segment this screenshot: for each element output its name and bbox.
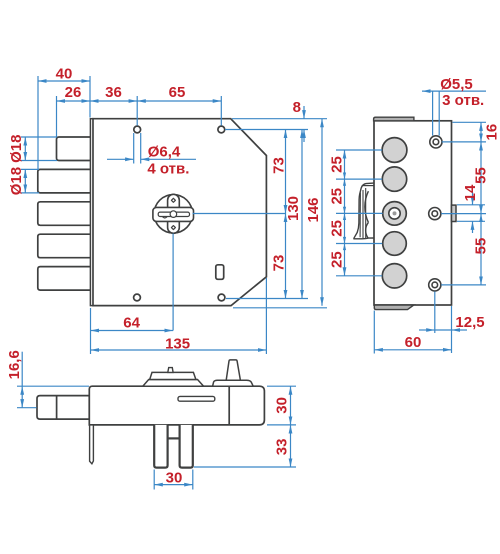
dim dia18 no1 line (24, 137, 26, 161)
wire: washer3 ext down (434, 292, 436, 334)
hub web line (168, 437, 180, 439)
dim chain 25 mid arrows at circle2 (343, 173, 346, 186)
wire: stub bottom tick (457, 220, 485, 222)
svg-text:60: 60 (405, 334, 422, 351)
faceplate blade (90, 425, 94, 464)
wire: hole width ext line right (140, 133, 142, 164)
svg-text:25: 25 (328, 220, 345, 237)
dim 12,5 left arrow (419, 329, 435, 331)
dim 16,6 line (21, 352, 23, 387)
dim 30 bottom line (154, 484, 193, 486)
cylinder horizontal bar (153, 207, 194, 221)
wire: ext line x=90 for dims 40/26/36 (89, 76, 91, 118)
wire: hub right ext down (192, 470, 194, 490)
svg-text:Ø18: Ø18 (8, 167, 25, 195)
keyway notch (162, 217, 167, 219)
leader dia 5,5 underline (422, 90, 486, 92)
dim 30 vertical line (290, 386, 292, 425)
wire: bottom hole ext line right (226, 298, 308, 300)
svg-text:12,5: 12,5 (455, 314, 484, 331)
wire: keyhole vertical centerline down (172, 234, 174, 331)
svg-text:16: 16 (483, 124, 500, 141)
lock body front view (93, 119, 267, 306)
cylinder vertical capsule (168, 194, 180, 233)
svg-text:8: 8 (293, 99, 301, 116)
svg-text:40: 40 (56, 66, 73, 83)
dim 8 lower arrow (303, 130, 305, 143)
dim chain 25 mid arrows at circle4 (343, 237, 346, 250)
bolt circle 4 (383, 232, 407, 256)
wire: circle1 connector (336, 149, 382, 151)
wire: bolt2 top ext (21, 168, 39, 170)
dim 33 line (290, 425, 292, 467)
bottom view bolt (37, 396, 89, 420)
wire: hole 5,5 ext left (432, 91, 434, 136)
keyway bump (170, 211, 177, 218)
svg-text:146: 146 (305, 197, 322, 222)
washer 2 (429, 208, 441, 220)
wire: top hole ext line right (225, 129, 308, 131)
washer 3 (429, 279, 441, 291)
key slot bottom view (178, 396, 215, 401)
wire: bolt2 bottom ext (21, 192, 39, 194)
svg-text:55: 55 (473, 238, 490, 255)
screw hole bottom-left (134, 294, 141, 301)
svg-text:16,6: 16,6 (6, 350, 23, 379)
hub bracket left leg (154, 425, 167, 468)
bolt circle 5 (382, 264, 406, 288)
faceplate front view (90, 119, 93, 306)
bolt B2 (38, 169, 91, 193)
dim 65 line (137, 100, 221, 102)
wire: keyhole centerline to right (193, 213, 286, 215)
lever contour lines (359, 193, 361, 238)
washer 1 (430, 136, 442, 148)
wire: hub left ext down (153, 470, 155, 490)
dim 16 line (480, 122, 482, 142)
svg-text:55: 55 (473, 167, 490, 184)
wire: washer2 connector (441, 213, 486, 215)
svg-text:30: 30 (166, 469, 183, 486)
wire: hub bottom ext right (194, 466, 296, 468)
svg-text:64: 64 (123, 315, 140, 332)
slot window (216, 265, 224, 280)
knob cone (226, 360, 240, 380)
wire: bolt axis ext left (17, 407, 37, 409)
screw hole top-right (218, 126, 225, 133)
lever on side view (354, 183, 374, 239)
bolt B5 (38, 267, 91, 291)
bottom view body (89, 386, 264, 425)
wire: circle2 connector (336, 178, 382, 180)
bolt divider (56, 396, 58, 420)
screw hole bottom-right (218, 294, 225, 301)
wire: side left edge ext down (373, 311, 375, 354)
wire: side right edge ext down (451, 306, 453, 353)
cylinder outer circle (154, 195, 192, 233)
dim dia18 no2 line (24, 169, 26, 193)
dim 135 line (91, 349, 267, 351)
wire: stub top tick (457, 204, 485, 206)
svg-text:73: 73 (271, 157, 288, 174)
side view body (374, 121, 452, 305)
dim chain 25 line (344, 150, 346, 276)
lever head line (362, 185, 374, 187)
wire: ext line x=38 for dim 40 (37, 76, 39, 170)
wire: hole width ext line left (133, 133, 135, 164)
svg-text:4 отв.: 4 отв. (147, 160, 189, 177)
wire: bolt1 bottom ext (21, 160, 57, 162)
dim 64 line (91, 330, 174, 332)
svg-text:36: 36 (105, 84, 122, 101)
svg-text:Ø6,4: Ø6,4 (148, 144, 181, 161)
svg-text:Ø18: Ø18 (8, 135, 25, 163)
body inner line (228, 386, 230, 425)
dim 14 upper arrow (472, 192, 474, 205)
dim chain 25 mid arrows at circle3 (343, 207, 346, 220)
collar nub (168, 368, 173, 373)
wire: side top edge ext (453, 121, 487, 123)
screw hole top-left (134, 126, 141, 133)
dim 60 line (374, 349, 451, 351)
bolt circle 1 (382, 138, 407, 163)
bolt B4 (38, 234, 91, 258)
wire: ext line x=56.5 for dim 26 (56, 96, 58, 137)
lever arc big (365, 191, 369, 222)
wire: bottom body top ext left (17, 385, 89, 387)
wire: ext line x=221.3 for dim 65 (220, 96, 222, 126)
wire: top edge ext to 146 dim (232, 118, 327, 120)
bolt B3 (38, 202, 91, 226)
dim 146 line (321, 119, 323, 306)
bolt circle 2 (382, 167, 406, 191)
svg-text:3 отв.: 3 отв. (442, 92, 484, 109)
dim 55 lower line (480, 214, 482, 285)
wire: bottom body bottom ext right (267, 424, 296, 426)
svg-text:Ø5,5: Ø5,5 (440, 76, 473, 93)
dim 8 upper arrow (303, 106, 305, 119)
collar cap (150, 372, 196, 379)
dim 130 line (301, 130, 303, 299)
dim 36 line (90, 100, 137, 102)
svg-text:25: 25 (328, 188, 345, 205)
side view top tab (374, 117, 414, 121)
latch stub (452, 205, 457, 221)
dim 73 upper line (285, 130, 287, 214)
svg-text:135: 135 (165, 335, 190, 352)
svg-text:73: 73 (271, 255, 288, 272)
wire: ext line x=137.2 for dims 36/65 (136, 96, 138, 126)
wire: circle5 connector (336, 275, 382, 277)
wire: circle3 connector (336, 212, 383, 214)
bolt circle 3 (cylinder axis) (383, 202, 407, 226)
svg-text:65: 65 (169, 84, 186, 101)
svg-text:26: 26 (65, 84, 82, 101)
dim 14 lower arrow (472, 221, 474, 233)
wire: ext line x=90.5 bottom (90, 308, 92, 354)
wire: washer3 connector (441, 284, 486, 286)
dim 55 upper line (480, 142, 482, 214)
cylinder screw bottom (171, 226, 175, 230)
svg-text:25: 25 (328, 156, 345, 173)
side view bottom tab (374, 305, 414, 310)
knob mound (213, 380, 254, 386)
wire: washer1 connector (442, 141, 486, 143)
dim 40 line (38, 80, 90, 82)
wire: circle4 connector (336, 243, 382, 245)
wire: ext line x=266.4 bottom (265, 278, 267, 354)
wire: hole 5,5 ext right (438, 91, 440, 136)
svg-text:33: 33 (273, 439, 290, 456)
wire: bottom edge ext to 146 dim (233, 307, 327, 309)
leader dia 6,4: left arrow segment (107, 158, 134, 160)
dim 26 line (57, 100, 91, 102)
collar base (143, 380, 204, 387)
keyway slot (158, 212, 189, 216)
dim 73 lower line (285, 214, 287, 299)
svg-text:30: 30 (273, 397, 290, 414)
svg-text:130: 130 (285, 196, 302, 221)
lever arc small (366, 222, 369, 238)
bolt B1 (57, 137, 92, 161)
dim 12,5 right arrow (452, 329, 468, 331)
hub bracket right leg (180, 425, 193, 468)
svg-text:14: 14 (462, 184, 479, 201)
wire: bottom body top ext right (267, 385, 296, 387)
dim 12,5 middle (435, 329, 452, 331)
cylinder screw top (171, 198, 175, 202)
wire: bolt1 top ext (21, 136, 57, 138)
svg-text:25: 25 (328, 251, 345, 268)
leader dia 6,4: right segment (141, 158, 196, 160)
